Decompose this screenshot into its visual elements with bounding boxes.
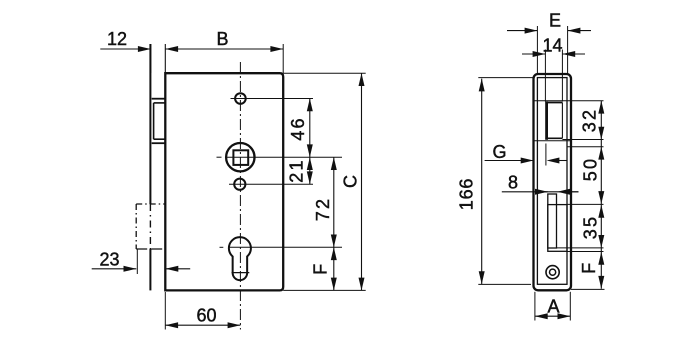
dim E label	[549, 10, 561, 30]
square follower square	[233, 150, 248, 165]
svg-text:21: 21	[286, 158, 306, 182]
svg-text:8: 8	[508, 172, 518, 192]
svg-text:C: C	[340, 175, 360, 188]
latch window left bar	[545, 101, 548, 139]
vertical centerline	[239, 62, 241, 330]
cylinder hole	[229, 237, 251, 280]
svg-text:12: 12	[107, 29, 127, 49]
dim 23 leader	[92, 266, 137, 272]
right chain ext line 50 top	[567, 146, 604, 148]
dim 50 label	[581, 157, 601, 181]
dim 8 label	[508, 172, 518, 192]
dim 166 label	[456, 178, 476, 210]
svg-text:B: B	[216, 29, 228, 49]
svg-text:F: F	[579, 263, 599, 274]
screw hole outer	[546, 266, 559, 279]
latch window top edge	[545, 102, 562, 104]
dim 12 leader	[100, 46, 150, 52]
svg-text:32: 32	[579, 108, 599, 132]
dim 14 ext lines	[545, 50, 562, 102]
dim G line	[485, 158, 567, 164]
dim 8 line	[502, 189, 579, 195]
faceplate left edge	[149, 44, 151, 290]
dim line 32/50/35/F	[598, 101, 604, 289]
cylinder centerline horizontal	[228, 246, 342, 248]
body top extension line	[283, 72, 366, 74]
case inner outline	[537, 78, 567, 285]
right chain ext line 32 bottom	[562, 139, 603, 141]
dim B ext line	[282, 44, 284, 73]
hole H2	[234, 179, 245, 190]
svg-text:72: 72	[313, 197, 333, 221]
staple top outer edge	[152, 98, 166, 100]
dim 32 label	[579, 108, 599, 132]
svg-text:E: E	[549, 10, 561, 30]
cylinder centerline tick	[220, 246, 224, 248]
dim 23 ext line	[136, 249, 138, 274]
follower centerline tick	[217, 156, 222, 158]
hole H1	[235, 93, 246, 104]
faceplate right edge / extension	[164, 44, 166, 73]
svg-text:G: G	[492, 142, 506, 162]
bolt slot	[548, 194, 557, 248]
hole H2 centerline horizontal	[229, 183, 313, 185]
dim E ext lines	[537, 26, 567, 74]
dim 166 top ext line	[478, 77, 533, 79]
lock case body outline	[165, 73, 283, 290]
dim 12 ext line	[150, 44, 152, 73]
dim B label	[216, 29, 228, 49]
right chain ext line 32 top	[534, 100, 604, 102]
staple bottom outer edge	[152, 142, 166, 144]
dim 60 ext line	[164, 292, 166, 330]
dim 14 label	[542, 35, 562, 55]
latch window right edge	[561, 103, 563, 139]
dim A line	[535, 313, 570, 319]
hidden cylinder box (dashed)	[136, 204, 165, 249]
svg-text:60: 60	[196, 306, 216, 326]
stulp slot opening	[548, 205, 567, 252]
staple bottom inner edge	[154, 138, 165, 140]
dim G ext line	[545, 144, 547, 166]
dim B line	[165, 46, 283, 52]
cylinder tab bottom line	[232, 272, 250, 274]
dim F label (right view)	[579, 263, 599, 274]
dim A label	[547, 296, 559, 316]
svg-text:F: F	[310, 264, 330, 275]
dim 72 label	[313, 197, 333, 221]
staple top inner edge	[154, 102, 165, 104]
dim 23 label	[99, 249, 119, 269]
dim 12 label	[107, 29, 127, 49]
latch window flange line	[534, 140, 571, 142]
stulp outer outline	[534, 74, 572, 290]
svg-text:166: 166	[456, 178, 476, 210]
dim C line	[359, 73, 365, 290]
dim 166 bottom ext line	[478, 283, 531, 285]
dim line 72/F	[331, 157, 337, 290]
dim 23 right arrow	[166, 266, 191, 272]
dim A ext lines	[535, 292, 570, 321]
svg-text:46: 46	[288, 116, 308, 140]
dim C label	[340, 175, 360, 188]
dim F label (left view)	[310, 264, 330, 275]
screw hole inner	[550, 269, 556, 275]
dim E line	[507, 28, 591, 34]
dim 60 label	[196, 306, 216, 326]
svg-text:23: 23	[99, 249, 119, 269]
hole H1 centerline horizontal	[231, 98, 314, 100]
svg-text:35: 35	[581, 215, 601, 239]
dim line 46/21	[307, 99, 313, 185]
svg-text:50: 50	[581, 157, 601, 181]
dim 14 line	[522, 51, 585, 57]
dim 60 line	[165, 322, 240, 328]
right chain ext line 35 bottom	[557, 247, 604, 249]
right chain ext line F top	[567, 251, 604, 253]
staple inner left edge	[153, 103, 155, 139]
latch window bottom edge	[545, 137, 562, 139]
dim G label	[492, 142, 506, 162]
right chain ext line F bottom	[571, 288, 605, 290]
svg-text:A: A	[547, 296, 559, 316]
square follower circle	[226, 143, 254, 171]
dim 21 label	[286, 158, 306, 182]
dim 35 label	[581, 215, 601, 239]
dim 46 label	[288, 116, 308, 140]
body bottom extension line	[283, 289, 366, 291]
8 dim tail line	[541, 191, 579, 193]
dim 166 line	[479, 79, 485, 285]
right chain ext line 50/35 junction	[567, 203, 604, 205]
follower centerline horizontal	[226, 156, 342, 158]
